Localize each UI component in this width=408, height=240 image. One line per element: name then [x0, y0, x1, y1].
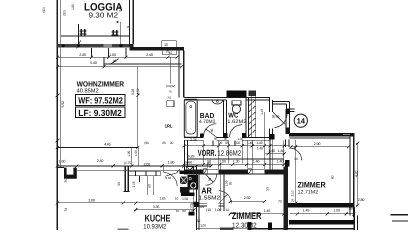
fixture: washbasin — [212, 100, 222, 104]
svg-text:1.00: 1.00 — [189, 209, 195, 213]
svg-text:WF: 97.52M2: WF: 97.52M2 — [78, 96, 123, 106]
svg-text:(65: (65 — [349, 207, 354, 211]
svg-text:1.40: 1.40 — [247, 141, 253, 145]
svg-text:4.20: 4.20 — [354, 171, 358, 178]
svg-text:1.50: 1.50 — [333, 209, 340, 213]
fixture: stove/sink unit — [180, 171, 192, 174]
wall: BAD/WC divider — [223, 100, 225, 138]
svg-text:70: 70 — [278, 200, 282, 204]
box WF — [76, 95, 125, 106]
entrance door arc — [275, 112, 287, 127]
svg-text:1.30: 1.30 — [233, 159, 240, 163]
wall: entrance nook — [272, 100, 289, 102]
small boxes 15/75 at top right — [162, 41, 176, 47]
corridor extension lines — [203, 141, 283, 170]
svg-text:(31)(32): (31)(32) — [166, 84, 175, 88]
svg-text:50: 50 — [197, 219, 201, 223]
svg-text:(90): (90) — [42, 7, 46, 12]
under-counter cabinet — [147, 176, 149, 195]
svg-text:2.80: 2.80 — [358, 198, 365, 202]
svg-text:R.02: R.02 — [165, 176, 171, 180]
svg-text:95: 95 — [228, 182, 232, 186]
hatched jamb at AR door — [203, 169, 207, 175]
svg-text:(90): (90) — [62, 10, 66, 15]
svg-text:5.92: 5.92 — [61, 101, 65, 108]
AR door arc (top) — [206, 174, 217, 185]
dim chain row: top of wohnzimmer — [57, 56, 177, 58]
wall: left exterior wall — [56, 0, 58, 230]
svg-text:90: 90 — [207, 161, 211, 165]
svg-text:1.00: 1.00 — [234, 141, 240, 145]
door-step arrow symbol — [111, 59, 119, 64]
svg-text:12.86M2: 12.86M2 — [217, 149, 241, 158]
svg-text:2.40: 2.40 — [146, 53, 153, 57]
svg-text:AR: AR — [201, 185, 212, 195]
svg-text:3.35: 3.35 — [153, 205, 160, 209]
dim lines kitchen — [57, 165, 211, 167]
svg-text:2.00: 2.00 — [79, 53, 86, 57]
svg-text:2.00: 2.00 — [144, 162, 151, 166]
wall: WC right — [245, 98, 247, 138]
svg-text:75: 75 — [64, 179, 68, 183]
svg-text:1.40: 1.40 — [278, 149, 285, 153]
svg-text:WOHNZIMMER: WOHNZIMMER — [77, 79, 125, 88]
wall: AR right — [220, 164, 222, 212]
wall: BAD/WC bottom (VORR top) — [184, 136, 204, 138]
corridor left wall — [184, 140, 186, 169]
tiny annotation cluster (31)(32) — [167, 101, 174, 107]
svg-text:1.50: 1.50 — [182, 197, 188, 201]
svg-text:1.60: 1.60 — [59, 160, 66, 164]
wall: zimmer divider (12.30 / 12.71) — [284, 167, 288, 231]
svg-text:90: 90 — [294, 157, 298, 161]
svg-text:1.55M2: 1.55M2 — [198, 196, 220, 202]
kitchen top row ticks — [56, 146, 213, 168]
box LF — [76, 107, 125, 118]
svg-text:90: 90 — [113, 59, 117, 63]
wall: kitchen right / AR left — [195, 165, 197, 230]
svg-text:80: 80 — [214, 137, 218, 141]
svg-text:3.45: 3.45 — [118, 6, 122, 12]
svg-text:1.80: 1.80 — [168, 161, 175, 165]
svg-text:A1: A1 — [168, 96, 172, 100]
svg-text:20: 20 — [170, 141, 174, 145]
svg-text:1.10: 1.10 — [260, 109, 264, 115]
svg-text:70: 70 — [291, 199, 295, 203]
loggia window symbol B — [112, 30, 119, 36]
svg-text:1.45: 1.45 — [303, 209, 310, 213]
kitchen counter — [128, 171, 160, 176]
wall: top exterior wall right portion — [129, 44, 133, 51]
svg-text:90: 90 — [219, 141, 223, 145]
svg-text:4.70M2: 4.70M2 — [199, 119, 216, 125]
kitchen door arc from VORR — [164, 173, 177, 187]
wall: black band above WC — [226, 90, 246, 98]
dim line: 4.65 horizontal — [57, 146, 138, 148]
kitchen wall vertical dims — [131, 147, 133, 166]
svg-text:60: 60 — [147, 184, 151, 188]
wall: wohnzimmer bottom + pier — [57, 165, 77, 167]
svg-text:80: 80 — [224, 137, 228, 141]
shaft lines — [251, 91, 253, 138]
svg-text:1.50: 1.50 — [134, 150, 138, 156]
wall: BAD top — [184, 96, 227, 98]
entrance door jamb black — [269, 134, 275, 139]
svg-text:1.80: 1.80 — [71, 4, 75, 10]
svg-text:1.40: 1.40 — [268, 149, 275, 153]
dim lines corridor — [184, 145, 289, 147]
dim chain row 2: 5.40 — [57, 66, 181, 68]
svg-text:1.00: 1.00 — [109, 53, 116, 57]
svg-text:1.62M2: 1.62M2 — [227, 119, 246, 125]
bottom edge fragments — [220, 228, 234, 230]
svg-text:95: 95 — [225, 141, 229, 145]
wall: loggia bottom parapet band — [57, 44, 129, 48]
svg-text:LF: 9.30M2: LF: 9.30M2 — [78, 108, 122, 118]
door arc: BAD — [204, 124, 217, 137]
door jambs at WC door — [223, 133, 228, 138]
svg-text:90: 90 — [117, 182, 121, 186]
svg-text:4.65: 4.65 — [104, 142, 111, 146]
svg-text:9.30 M2: 9.30 M2 — [89, 11, 119, 20]
svg-text:2.90: 2.90 — [314, 142, 321, 146]
svg-text:1RL: 1RL — [165, 124, 173, 129]
svg-text:1.00: 1.00 — [219, 159, 226, 163]
corridor right wall lower — [269, 140, 271, 170]
dim line: vertical inside wohnzimmer — [137, 67, 139, 148]
svg-text:50: 50 — [266, 187, 270, 191]
wall: right zimmer right — [349, 137, 351, 216]
wall: right zimmer bottom — [288, 203, 354, 207]
svg-text:12.71M2: 12.71M2 — [298, 189, 319, 195]
svg-text:1.40: 1.40 — [257, 141, 263, 145]
wall: right zimmer top — [289, 133, 354, 137]
svg-text:(90: (90 — [144, 141, 149, 145]
svg-text:10: 10 — [226, 208, 230, 212]
wall: corridor right (entrance) — [269, 97, 271, 112]
svg-text:85: 85 — [162, 141, 166, 145]
svg-text:1.00: 1.00 — [215, 208, 222, 212]
svg-text:10.93M2: 10.93M2 — [143, 223, 166, 230]
svg-text:ZIMMER: ZIMMER — [298, 181, 326, 190]
left wall ticks — [56, 94, 60, 97]
svg-text:(10: (10 — [206, 208, 211, 212]
loggia window symbol A — [80, 29, 87, 36]
fixture: WC toilet — [232, 101, 241, 105]
svg-text:90: 90 — [185, 161, 189, 165]
fixture: bathtub — [184, 99, 197, 137]
svg-text:50.06: 50.06 — [272, 115, 280, 119]
dim line bottom rooms — [230, 201, 264, 203]
bottom-right corner walls — [353, 207, 355, 230]
svg-text:30: 30 — [208, 178, 212, 182]
svg-text:2.50: 2.50 — [244, 196, 251, 200]
svg-text:1.05: 1.05 — [198, 205, 204, 209]
svg-text:5.40: 5.40 — [90, 61, 97, 65]
svg-text:1.10: 1.10 — [237, 137, 243, 141]
svg-text:10: 10 — [175, 197, 179, 201]
svg-text:15: 15 — [164, 43, 168, 47]
door arc into right zimmer — [289, 148, 301, 160]
svg-text:80: 80 — [330, 175, 334, 179]
svg-text:VORR.: VORR. — [198, 148, 216, 158]
svg-text:12.30M2: 12.30M2 — [232, 222, 257, 229]
loggia extension lines — [78, 24, 80, 44]
svg-text:80: 80 — [182, 209, 186, 213]
svg-text:2.10: 2.10 — [290, 190, 294, 196]
wall: VORR right segment w/ door to right zimmer — [284, 140, 286, 148]
svg-text:1.40: 1.40 — [277, 159, 284, 163]
wall: right zimmer left wall upper — [285, 114, 287, 134]
corridor dim ticks — [182, 144, 285, 166]
svg-text:1.00: 1.00 — [200, 224, 206, 228]
svg-text:(1.75: (1.75 — [124, 161, 131, 165]
svg-text:1.95: 1.95 — [127, 151, 131, 157]
svg-text:1.45: 1.45 — [264, 209, 271, 213]
svg-text:15: 15 — [126, 25, 130, 29]
svg-text:74: 74 — [64, 208, 68, 212]
hatched jamb at zimmer door — [248, 169, 253, 175]
svg-text:3.00: 3.00 — [88, 198, 95, 202]
svg-text:1.40: 1.40 — [253, 159, 260, 163]
svg-text:14: 14 — [297, 116, 306, 125]
svg-text:2.35: 2.35 — [190, 138, 197, 142]
extension lines top chain — [92, 48, 127, 67]
svg-text:75: 75 — [168, 90, 172, 94]
svg-text:75: 75 — [166, 50, 170, 54]
svg-text:10: 10 — [176, 209, 180, 213]
svg-text:1.65: 1.65 — [159, 196, 165, 200]
svg-text:6.29: 6.29 — [188, 154, 195, 158]
svg-text:3.28: 3.28 — [131, 89, 135, 95]
circle 14 (apartment number) — [294, 114, 307, 127]
wall: right exterior wall upper (wohnzimmer) — [177, 47, 184, 51]
svg-text:4.52: 4.52 — [136, 88, 140, 94]
hatched jamb kitchen/VORR — [186, 167, 193, 174]
loggia window line — [61, 35, 130, 37]
wall: loggia right wall — [128, 0, 130, 47]
balcony band bottom right — [289, 220, 354, 224]
svg-text:80: 80 — [210, 129, 214, 133]
AR bottom door arc — [219, 191, 232, 204]
svg-text:90: 90 — [189, 160, 193, 164]
svg-text:2.40: 2.40 — [97, 159, 104, 163]
door arc: WC — [230, 125, 243, 138]
wall: kitchen partial wall — [124, 166, 126, 191]
svg-text:40.85M2: 40.85M2 — [77, 88, 99, 95]
wall: VORR bottom — [184, 169, 284, 171]
wall: AR bottom — [196, 202, 207, 204]
svg-text:ZIMMER: ZIMMER — [232, 211, 262, 222]
svg-text:2.05: 2.05 — [132, 181, 136, 187]
svg-text:1.40: 1.40 — [257, 147, 263, 151]
